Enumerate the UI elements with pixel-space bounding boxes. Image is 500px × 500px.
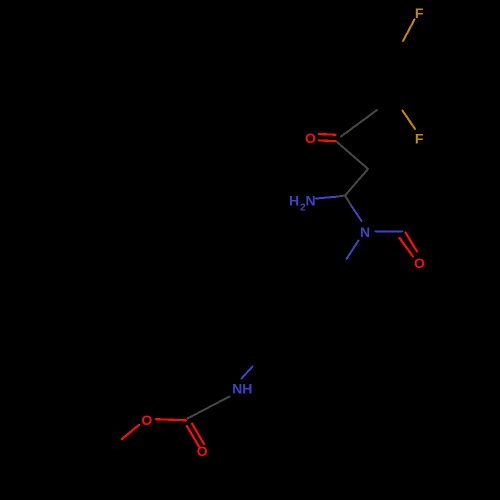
svg-text:O: O xyxy=(414,255,425,271)
svg-text:N: N xyxy=(306,192,316,208)
svg-text:NH: NH xyxy=(232,380,252,396)
svg-text:O: O xyxy=(141,412,152,428)
svg-text:N: N xyxy=(360,224,370,240)
svg-text:F: F xyxy=(415,130,424,146)
svg-text:F: F xyxy=(415,5,424,21)
svg-text:O: O xyxy=(197,443,208,459)
svg-text:H: H xyxy=(289,193,299,209)
svg-text:O: O xyxy=(305,130,316,146)
